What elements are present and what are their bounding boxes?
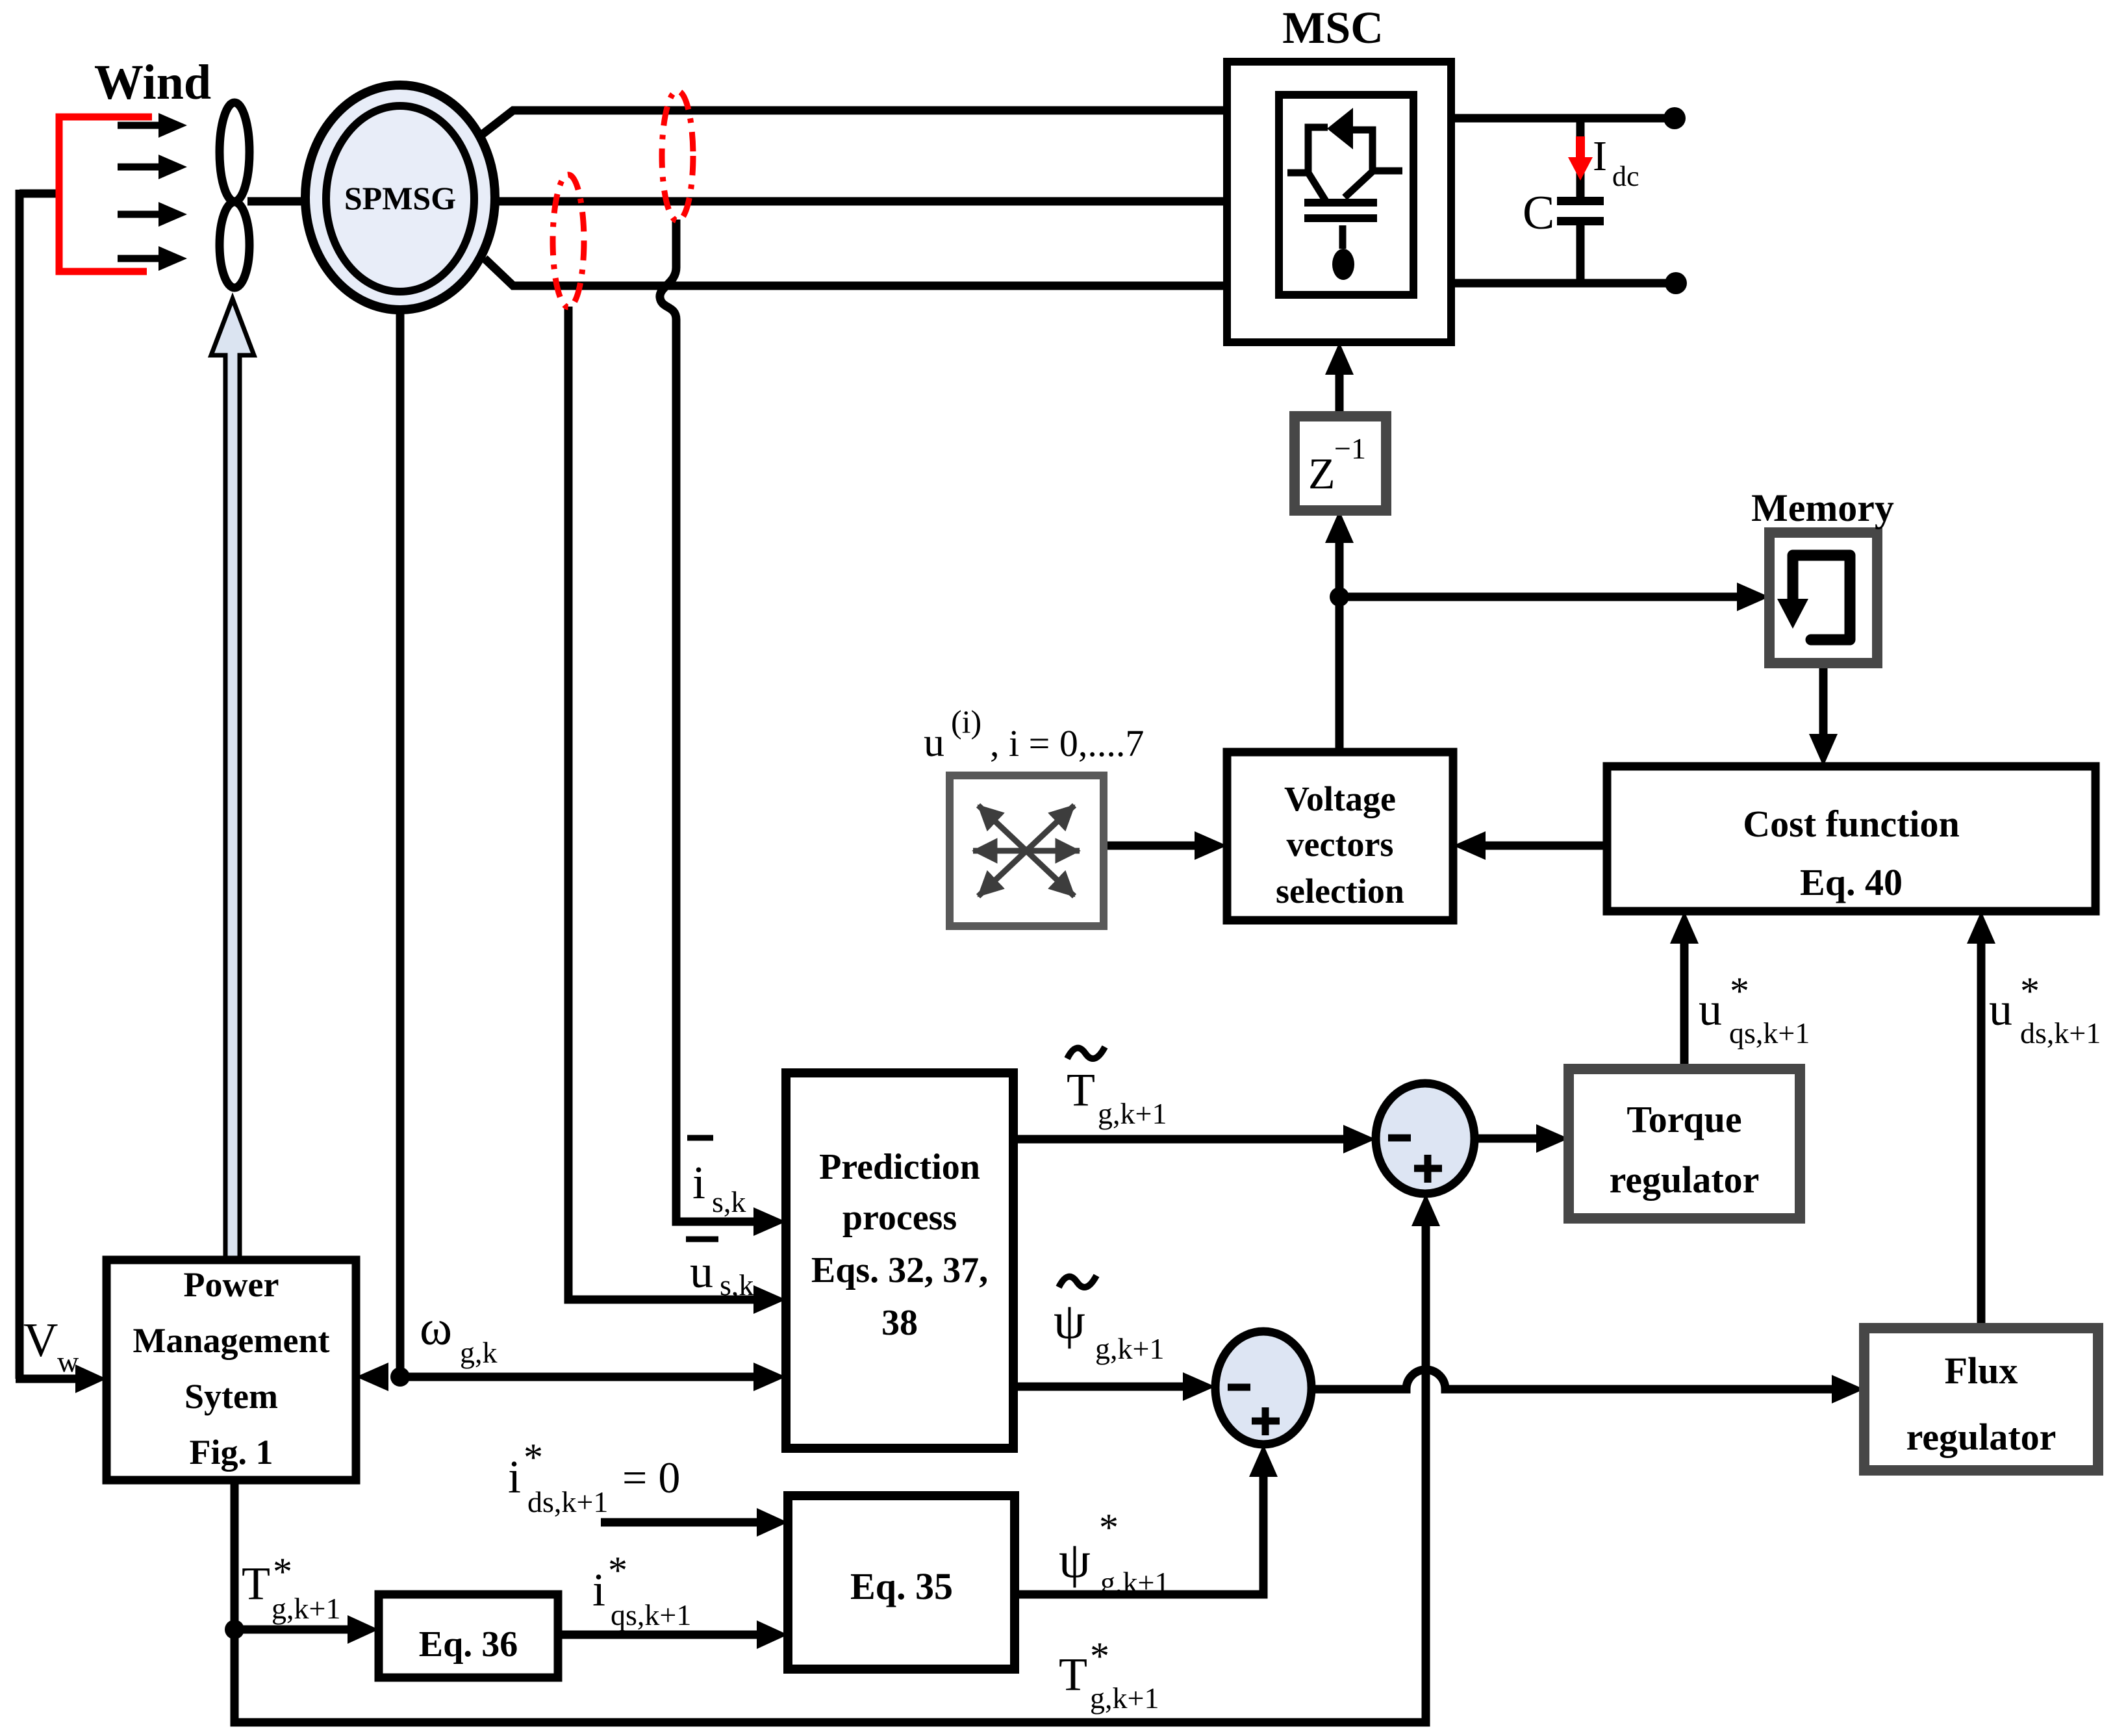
svg-text:vectors: vectors bbox=[1287, 825, 1394, 864]
svg-text:u: u bbox=[1699, 983, 1722, 1035]
svg-text:MSC: MSC bbox=[1282, 3, 1384, 53]
svg-text:ψ: ψ bbox=[1059, 1531, 1091, 1588]
svg-text:g,k+1: g,k+1 bbox=[1098, 1097, 1167, 1130]
svg-text:*: * bbox=[1090, 1635, 1109, 1678]
svg-text:g,k+1: g,k+1 bbox=[272, 1592, 340, 1625]
svg-text:Wind: Wind bbox=[94, 55, 211, 110]
svg-text:u: u bbox=[690, 1246, 713, 1298]
svg-text:−1: −1 bbox=[1334, 432, 1366, 465]
svg-text:Power: Power bbox=[184, 1265, 279, 1304]
svg-text:38: 38 bbox=[881, 1303, 918, 1343]
svg-text:Memory: Memory bbox=[1751, 486, 1894, 529]
svg-text:w: w bbox=[57, 1345, 79, 1378]
svg-text:= 0: = 0 bbox=[622, 1453, 680, 1502]
svg-text:ds,k+1: ds,k+1 bbox=[527, 1485, 608, 1518]
svg-text:process: process bbox=[842, 1198, 957, 1238]
svg-text:ω: ω bbox=[420, 1301, 452, 1355]
svg-text:*: * bbox=[2020, 970, 2040, 1013]
svg-text:T: T bbox=[242, 1557, 270, 1609]
svg-text:ds,k+1: ds,k+1 bbox=[2020, 1016, 2101, 1050]
svg-text:T: T bbox=[1067, 1064, 1095, 1116]
svg-text:(i): (i) bbox=[951, 703, 981, 740]
svg-text:Flux: Flux bbox=[1945, 1350, 2018, 1392]
svg-text:u: u bbox=[924, 719, 944, 765]
svg-text:g,k+1: g,k+1 bbox=[1095, 1332, 1164, 1365]
svg-text:u: u bbox=[1989, 983, 2012, 1035]
svg-text:ψ: ψ bbox=[1054, 1292, 1085, 1349]
svg-text:*: * bbox=[1730, 970, 1749, 1013]
svg-text:g,k: g,k bbox=[460, 1336, 498, 1369]
svg-text:Voltage: Voltage bbox=[1284, 779, 1396, 818]
svg-text:*: * bbox=[524, 1436, 543, 1479]
svg-text:i: i bbox=[692, 1157, 705, 1209]
svg-text:dc: dc bbox=[1612, 160, 1639, 192]
svg-text:g,k+1: g,k+1 bbox=[1090, 1681, 1159, 1715]
svg-text:s,k: s,k bbox=[720, 1268, 753, 1302]
svg-text:Fig. 1: Fig. 1 bbox=[190, 1433, 273, 1472]
svg-text:Torque: Torque bbox=[1626, 1098, 1741, 1140]
svg-text:selection: selection bbox=[1276, 872, 1404, 911]
svg-text:i: i bbox=[592, 1564, 605, 1616]
svg-text:*: * bbox=[273, 1550, 292, 1593]
svg-text:qs,k+1: qs,k+1 bbox=[611, 1598, 691, 1631]
svg-text:*: * bbox=[608, 1549, 627, 1592]
svg-text:Management: Management bbox=[133, 1321, 330, 1360]
svg-text:Eq. 40: Eq. 40 bbox=[1800, 861, 1903, 903]
svg-text:qs,k+1: qs,k+1 bbox=[1729, 1016, 1810, 1050]
svg-text:s,k: s,k bbox=[712, 1185, 746, 1218]
svg-text:Cost function: Cost function bbox=[1743, 803, 1960, 845]
svg-text:T: T bbox=[1059, 1648, 1087, 1700]
svg-text:Eq. 36: Eq. 36 bbox=[419, 1624, 518, 1665]
svg-text:g,k+1: g,k+1 bbox=[1100, 1566, 1169, 1599]
svg-text:*: * bbox=[1099, 1506, 1119, 1549]
svg-text:C: C bbox=[1523, 186, 1554, 240]
svg-text:regulator: regulator bbox=[1610, 1159, 1760, 1201]
svg-text:Prediction: Prediction bbox=[819, 1147, 980, 1187]
svg-text:V: V bbox=[23, 1314, 58, 1367]
svg-text:Eq. 35: Eq. 35 bbox=[850, 1565, 953, 1607]
svg-text:, i = 0,....7: , i = 0,....7 bbox=[990, 722, 1144, 764]
svg-text:I: I bbox=[1593, 132, 1607, 180]
svg-text:i: i bbox=[508, 1451, 521, 1503]
svg-text:regulator: regulator bbox=[1906, 1416, 2056, 1458]
svg-text:Z: Z bbox=[1308, 449, 1335, 498]
svg-text:Sytem: Sytem bbox=[184, 1377, 278, 1416]
svg-text:SPMSG: SPMSG bbox=[344, 180, 456, 216]
svg-text:Eqs. 32, 37,: Eqs. 32, 37, bbox=[811, 1250, 988, 1290]
